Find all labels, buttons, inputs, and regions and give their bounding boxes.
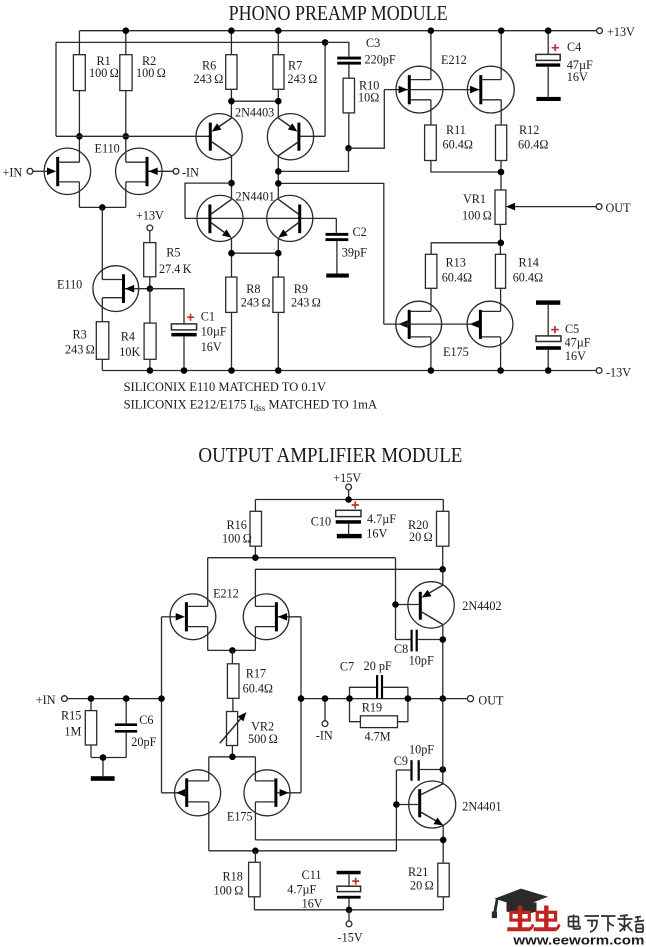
junction diode node left xyxy=(228,180,235,187)
resistor R21 xyxy=(408,863,449,910)
svg-text:243 Ω: 243 Ω xyxy=(288,72,318,86)
junction right node upper xyxy=(275,168,282,175)
svg-text:+13V: +13V xyxy=(136,208,164,222)
svg-text:-IN: -IN xyxy=(316,728,333,742)
svg-text:C5: C5 xyxy=(565,322,579,336)
svg-text:E212: E212 xyxy=(441,53,467,67)
junction C11 bottom xyxy=(346,907,353,914)
junction C8 right / collector xyxy=(440,636,447,643)
junction E212 right drain on rail xyxy=(498,27,505,34)
wire sources to E110 lower drain xyxy=(101,207,103,279)
capacitor C11 4.7uF electrolytic xyxy=(287,868,360,911)
resistor R1 xyxy=(73,31,118,163)
capacitor C9 10pF xyxy=(394,743,443,781)
svg-text:R12: R12 xyxy=(519,123,539,137)
svg-text:60.4Ω: 60.4Ω xyxy=(243,682,273,696)
JFET E212 top left xyxy=(384,31,481,125)
svg-text:20 pF: 20 pF xyxy=(364,659,392,673)
svg-text:R6: R6 xyxy=(202,59,216,73)
resistor R18 xyxy=(214,851,261,910)
svg-text:R9: R9 xyxy=(294,282,308,296)
junction R6 top xyxy=(228,27,235,34)
junction C4 top on rail xyxy=(545,27,552,34)
svg-text:E175: E175 xyxy=(443,345,469,359)
transistor Q 2N4401 bottom xyxy=(396,699,455,864)
svg-text:C2: C2 xyxy=(353,225,367,239)
svg-text:20 Ω: 20 Ω xyxy=(410,879,434,893)
svg-text:R3: R3 xyxy=(73,328,87,342)
wire VR1 bottom node xyxy=(431,224,501,254)
resistor R14 xyxy=(495,254,543,311)
svg-text:C4: C4 xyxy=(567,40,581,54)
junction -IN stub xyxy=(322,695,329,702)
svg-text:R18: R18 xyxy=(223,870,243,884)
wire lineA E175 right source to emitter xyxy=(255,839,443,841)
resistor R9 xyxy=(273,277,321,370)
svg-text:C9: C9 xyxy=(394,754,408,768)
svg-text:500 Ω: 500 Ω xyxy=(248,732,278,746)
svg-text:100 Ω: 100 Ω xyxy=(214,884,244,898)
junction R15 top xyxy=(88,695,95,702)
junction feedback vertical xyxy=(298,695,305,702)
watermark CJK text dianzi xiazaizhan xyxy=(569,915,645,933)
ground bar below C2 xyxy=(326,274,349,278)
junction R5 bottom gate node xyxy=(147,285,154,292)
svg-text:2N4403: 2N4403 xyxy=(235,106,274,120)
resistor R12 xyxy=(496,123,549,190)
potentiometer VR2 xyxy=(220,712,278,747)
junction VR1 bottom xyxy=(498,240,505,247)
svg-text:-15V: -15V xyxy=(338,931,363,945)
junction VR2 bottom xyxy=(229,754,236,761)
transistor Q 2N4401 left xyxy=(197,195,243,241)
junction +IN/gates xyxy=(158,695,165,702)
svg-text:4.7M: 4.7M xyxy=(365,730,391,744)
svg-text:16V: 16V xyxy=(565,349,586,363)
terminal -IN bottom xyxy=(316,699,333,743)
wire 2N4403 right collector to 2N4401 right collector xyxy=(277,156,279,199)
svg-text:+IN: +IN xyxy=(3,166,23,180)
junction right node lower xyxy=(275,180,282,187)
capacitor C2 39pF xyxy=(326,218,368,273)
svg-text:OUT: OUT xyxy=(606,201,632,215)
junction rail2-C3 xyxy=(322,39,329,46)
resistor R7 xyxy=(273,31,317,118)
resistor R16 xyxy=(222,511,262,557)
junction R2/E110 drain line xyxy=(123,133,130,140)
wire rail2 to C3 xyxy=(325,42,349,56)
JFET E212 bottom left xyxy=(162,594,216,651)
JFET E175 top right xyxy=(384,301,513,370)
svg-text:16V: 16V xyxy=(201,340,222,354)
wire E110 sources join xyxy=(79,206,125,208)
JFET E212 bottom right xyxy=(243,594,301,793)
resistor R13 xyxy=(425,254,472,311)
watermark red bug 2 xyxy=(534,906,560,930)
wire line1 R16 bottom to 2N4402 base xyxy=(208,558,396,640)
JFET E110 left xyxy=(33,148,91,207)
wire 2N4401 collectors node to E175 gates xyxy=(278,183,384,324)
junction emitter/R21 xyxy=(440,837,447,844)
ground bar xyxy=(91,776,115,781)
junction R4 bottom xyxy=(147,367,154,374)
capacitor C8 10pF xyxy=(394,630,443,668)
svg-text:R11: R11 xyxy=(446,123,466,137)
terminal -13V xyxy=(596,366,631,380)
junction R2 top on rail xyxy=(123,27,130,34)
wire 2N4401 common base line xyxy=(185,217,336,219)
svg-text:VR1: VR1 xyxy=(463,192,486,206)
junction sources xyxy=(99,204,106,211)
svg-text:+13V: +13V xyxy=(607,25,635,39)
resistor R8 xyxy=(226,277,271,370)
JFET E175 bottom right xyxy=(244,770,301,840)
junction C10 top on rail xyxy=(345,496,352,503)
wire lineB E175 left source to base vertical xyxy=(209,850,397,852)
svg-text:OUT: OUT xyxy=(478,694,504,708)
svg-text:16V: 16V xyxy=(302,897,323,911)
terminal +13V for R5 xyxy=(136,208,164,231)
svg-text:100 Ω: 100 Ω xyxy=(222,532,252,546)
svg-text:C7: C7 xyxy=(340,660,354,674)
svg-text:2N4402: 2N4402 xyxy=(462,599,501,613)
wire +IN line xyxy=(67,698,161,700)
JFET E110 lower xyxy=(93,266,150,322)
resistor R3 xyxy=(65,322,109,371)
junction R20 bottom / 2N4402 emitter xyxy=(439,566,446,573)
svg-text:10µF: 10µF xyxy=(201,325,227,339)
junction C5 bottom on rail xyxy=(545,367,552,374)
svg-text:39pF: 39pF xyxy=(342,246,367,260)
terminal OUT xyxy=(596,201,631,215)
svg-text:27.4 K: 27.4 K xyxy=(159,262,192,276)
svg-text:C3: C3 xyxy=(366,36,380,50)
junction E175 right source on rail xyxy=(497,367,504,374)
svg-text:4.7µF: 4.7µF xyxy=(367,512,396,526)
capacitor C4 47uF electrolytic xyxy=(536,31,593,101)
wire VR2 bottom to E175 drains xyxy=(209,746,256,781)
JFET E175 bottom left xyxy=(162,770,221,851)
resistor R15 xyxy=(61,699,97,758)
svg-text:E175: E175 xyxy=(227,810,253,824)
watermark graduation cap xyxy=(492,889,548,919)
capacitor C10 4.7uF electrolytic xyxy=(311,501,396,540)
svg-text:243 Ω: 243 Ω xyxy=(241,296,271,310)
svg-text:R15: R15 xyxy=(61,709,81,723)
wire gates left vertical from +IN xyxy=(161,617,163,793)
wire 2N4403 left collector to 2N4401 left collector xyxy=(231,156,233,199)
svg-text:220pF: 220pF xyxy=(365,52,396,66)
terminal OUT bottom xyxy=(467,694,504,708)
junction R8 bottom xyxy=(228,367,235,374)
svg-text:R21: R21 xyxy=(408,865,428,879)
svg-text:E110: E110 xyxy=(95,141,120,155)
svg-text:SILICONIX E212/E175 Idss MA: SILICONIX E212/E175 Idss MATCHED TO 1mA xyxy=(124,398,377,413)
svg-text:R16: R16 xyxy=(227,518,247,532)
terminal +13V xyxy=(597,25,635,39)
resistor R6 xyxy=(194,31,238,118)
terminal -IN xyxy=(173,166,199,180)
junction C7/R19 right xyxy=(405,695,412,702)
junction C7/R19 left xyxy=(346,695,353,702)
resistor R5 xyxy=(144,231,192,289)
node -13V rail (bottom rail top module) xyxy=(102,370,596,372)
transistor Q 2N4401 right xyxy=(267,195,313,241)
wire E110 drains to 2N4403 left base xyxy=(56,135,210,137)
svg-text:R17: R17 xyxy=(246,667,266,681)
svg-text:20 Ω: 20 Ω xyxy=(409,530,433,544)
svg-text:60.4Ω: 60.4Ω xyxy=(513,271,543,285)
JFET E212 top right xyxy=(467,31,514,125)
svg-text:C1: C1 xyxy=(201,309,215,323)
svg-text:20pF: 20pF xyxy=(131,735,156,749)
transistor Q 2N4403 left xyxy=(196,114,242,160)
svg-text:243 Ω: 243 Ω xyxy=(65,343,95,357)
junction C9 right / collector xyxy=(440,766,447,773)
svg-text:4.7µF: 4.7µF xyxy=(287,883,316,897)
resistor R20 xyxy=(408,511,449,569)
node OUT line xyxy=(301,698,467,700)
junction E212 left drain on rail xyxy=(428,27,435,34)
wire C9 left to 2N4401 base to lineB xyxy=(395,770,397,851)
junction R10 bottom node xyxy=(345,145,352,152)
terminal +IN xyxy=(3,166,33,180)
junction 2N4402 base xyxy=(392,601,399,608)
JFET E110 right xyxy=(116,148,173,207)
svg-text:SILICONIX E110 MATCHED TO: SILICONIX E110 MATCHED TO 0.1V xyxy=(124,379,327,394)
junction R7 bottom xyxy=(275,98,282,105)
svg-text:C11: C11 xyxy=(302,868,322,882)
wire gate node to C1 xyxy=(150,289,184,324)
svg-text:10Ω: 10Ω xyxy=(358,91,379,105)
junction R1/E110 drain line xyxy=(76,133,83,140)
node +13V rail (top rail) xyxy=(80,30,597,32)
svg-text:C10: C10 xyxy=(311,515,331,529)
wire line2 E212 right drain to R20 bottom xyxy=(255,569,442,606)
junction E175 left source on rail xyxy=(428,367,435,374)
junction R18 top xyxy=(252,848,259,855)
svg-text:R14: R14 xyxy=(519,256,539,270)
svg-text:C8: C8 xyxy=(394,642,408,656)
capacitor C6 20pF xyxy=(115,699,157,758)
junction 2N4401 base xyxy=(393,801,400,808)
junction R7 top xyxy=(275,27,282,34)
resistor R10 xyxy=(343,78,379,148)
terminal +15V xyxy=(333,471,361,500)
svg-text:243 Ω: 243 Ω xyxy=(194,72,224,86)
junction sources to R17 xyxy=(229,647,236,654)
JFET E175 top left xyxy=(396,301,442,370)
watermark red bug 1 xyxy=(507,906,533,930)
svg-text:-13V: -13V xyxy=(606,366,631,380)
junction R16 bottom / E212 left drain xyxy=(252,554,259,561)
svg-text:OUTPUT AMPLIFIER MODULE: OUTPUT AMPLIFIER MODULE xyxy=(198,443,462,467)
junction R11-R12 node xyxy=(498,169,505,176)
resistor R19 xyxy=(350,699,408,744)
transistor Q 2N4403 right xyxy=(267,114,313,160)
svg-text:-IN: -IN xyxy=(182,166,199,180)
svg-text:60.4Ω: 60.4Ω xyxy=(442,271,472,285)
junction C1 bottom xyxy=(181,367,188,374)
wire node to E212 gate xyxy=(349,90,385,149)
svg-text:R8: R8 xyxy=(246,282,260,296)
junction OUT/collector vertical xyxy=(440,695,447,702)
junction emitter right xyxy=(275,250,282,257)
resistor R17 xyxy=(227,650,273,711)
junction R6 bottom xyxy=(228,98,235,105)
wire R15 C6 bottoms join xyxy=(91,758,126,777)
svg-text:16V: 16V xyxy=(567,70,588,84)
potentiometer VR1 xyxy=(462,190,596,224)
node +15V rail xyxy=(255,500,443,512)
wire R6-R7 bottoms joined xyxy=(231,100,278,102)
wire 2N4401 emitters down to R8 R9 xyxy=(232,238,279,277)
svg-text:1M: 1M xyxy=(64,725,81,739)
svg-text:60.4Ω: 60.4Ω xyxy=(443,138,473,152)
capacitor C1 10uF electrolytic xyxy=(171,309,227,370)
svg-text:R4: R4 xyxy=(121,329,135,343)
svg-text:10pF: 10pF xyxy=(409,653,434,667)
svg-text:10K: 10K xyxy=(119,345,140,359)
terminal +IN bottom xyxy=(36,693,68,707)
resistor R4 xyxy=(119,289,156,371)
node -15V rail xyxy=(254,909,443,911)
svg-text:+15V: +15V xyxy=(333,471,361,485)
svg-text:100 Ω: 100 Ω xyxy=(89,66,119,80)
svg-text:R5: R5 xyxy=(166,246,180,260)
capacitor C5 47uF electrolytic xyxy=(536,300,591,370)
wire node down to 2N4403 right collector xyxy=(278,148,348,171)
svg-text:E110: E110 xyxy=(57,278,82,292)
svg-text:10pF: 10pF xyxy=(409,743,434,757)
svg-text:2N4401: 2N4401 xyxy=(462,800,501,814)
svg-text:C6: C6 xyxy=(139,713,153,727)
svg-text:PHONO PREAMP MODULE: PHONO PREAMP MODULE xyxy=(229,1,448,25)
svg-text:100 Ω: 100 Ω xyxy=(462,209,492,223)
svg-text:60.4Ω: 60.4Ω xyxy=(518,138,548,152)
svg-text:R19: R19 xyxy=(362,701,382,715)
junction emitter left xyxy=(228,250,235,257)
resistor R2 xyxy=(120,31,166,163)
svg-text:E212: E212 xyxy=(213,586,239,600)
wire E212 sources join xyxy=(208,649,256,651)
svg-text:47µF: 47µF xyxy=(565,336,591,350)
wire left node to 2N4401 bases xyxy=(185,183,232,218)
svg-text:www.eeworm.com: www.eeworm.com xyxy=(512,933,644,947)
transistor Q 2N4402 xyxy=(396,569,455,698)
svg-text:R13: R13 xyxy=(446,256,466,270)
svg-text:+IN: +IN xyxy=(36,693,56,707)
svg-text:R7: R7 xyxy=(288,59,302,73)
junction R9 bottom xyxy=(275,367,282,374)
junction C6 top xyxy=(123,695,130,702)
svg-text:243 Ω: 243 Ω xyxy=(291,296,321,310)
resistor R11 xyxy=(425,123,501,172)
svg-text:16V: 16V xyxy=(366,527,387,541)
capacitor C7 20pF xyxy=(340,659,408,699)
capacitor C3 220pF xyxy=(337,36,396,78)
terminal -15V xyxy=(338,910,363,945)
junction ground node xyxy=(100,754,107,761)
svg-text:2N4401: 2N4401 xyxy=(236,190,275,204)
wire second rail to 2N4403 right base xyxy=(56,42,325,136)
svg-text:100 Ω: 100 Ω xyxy=(136,66,166,80)
